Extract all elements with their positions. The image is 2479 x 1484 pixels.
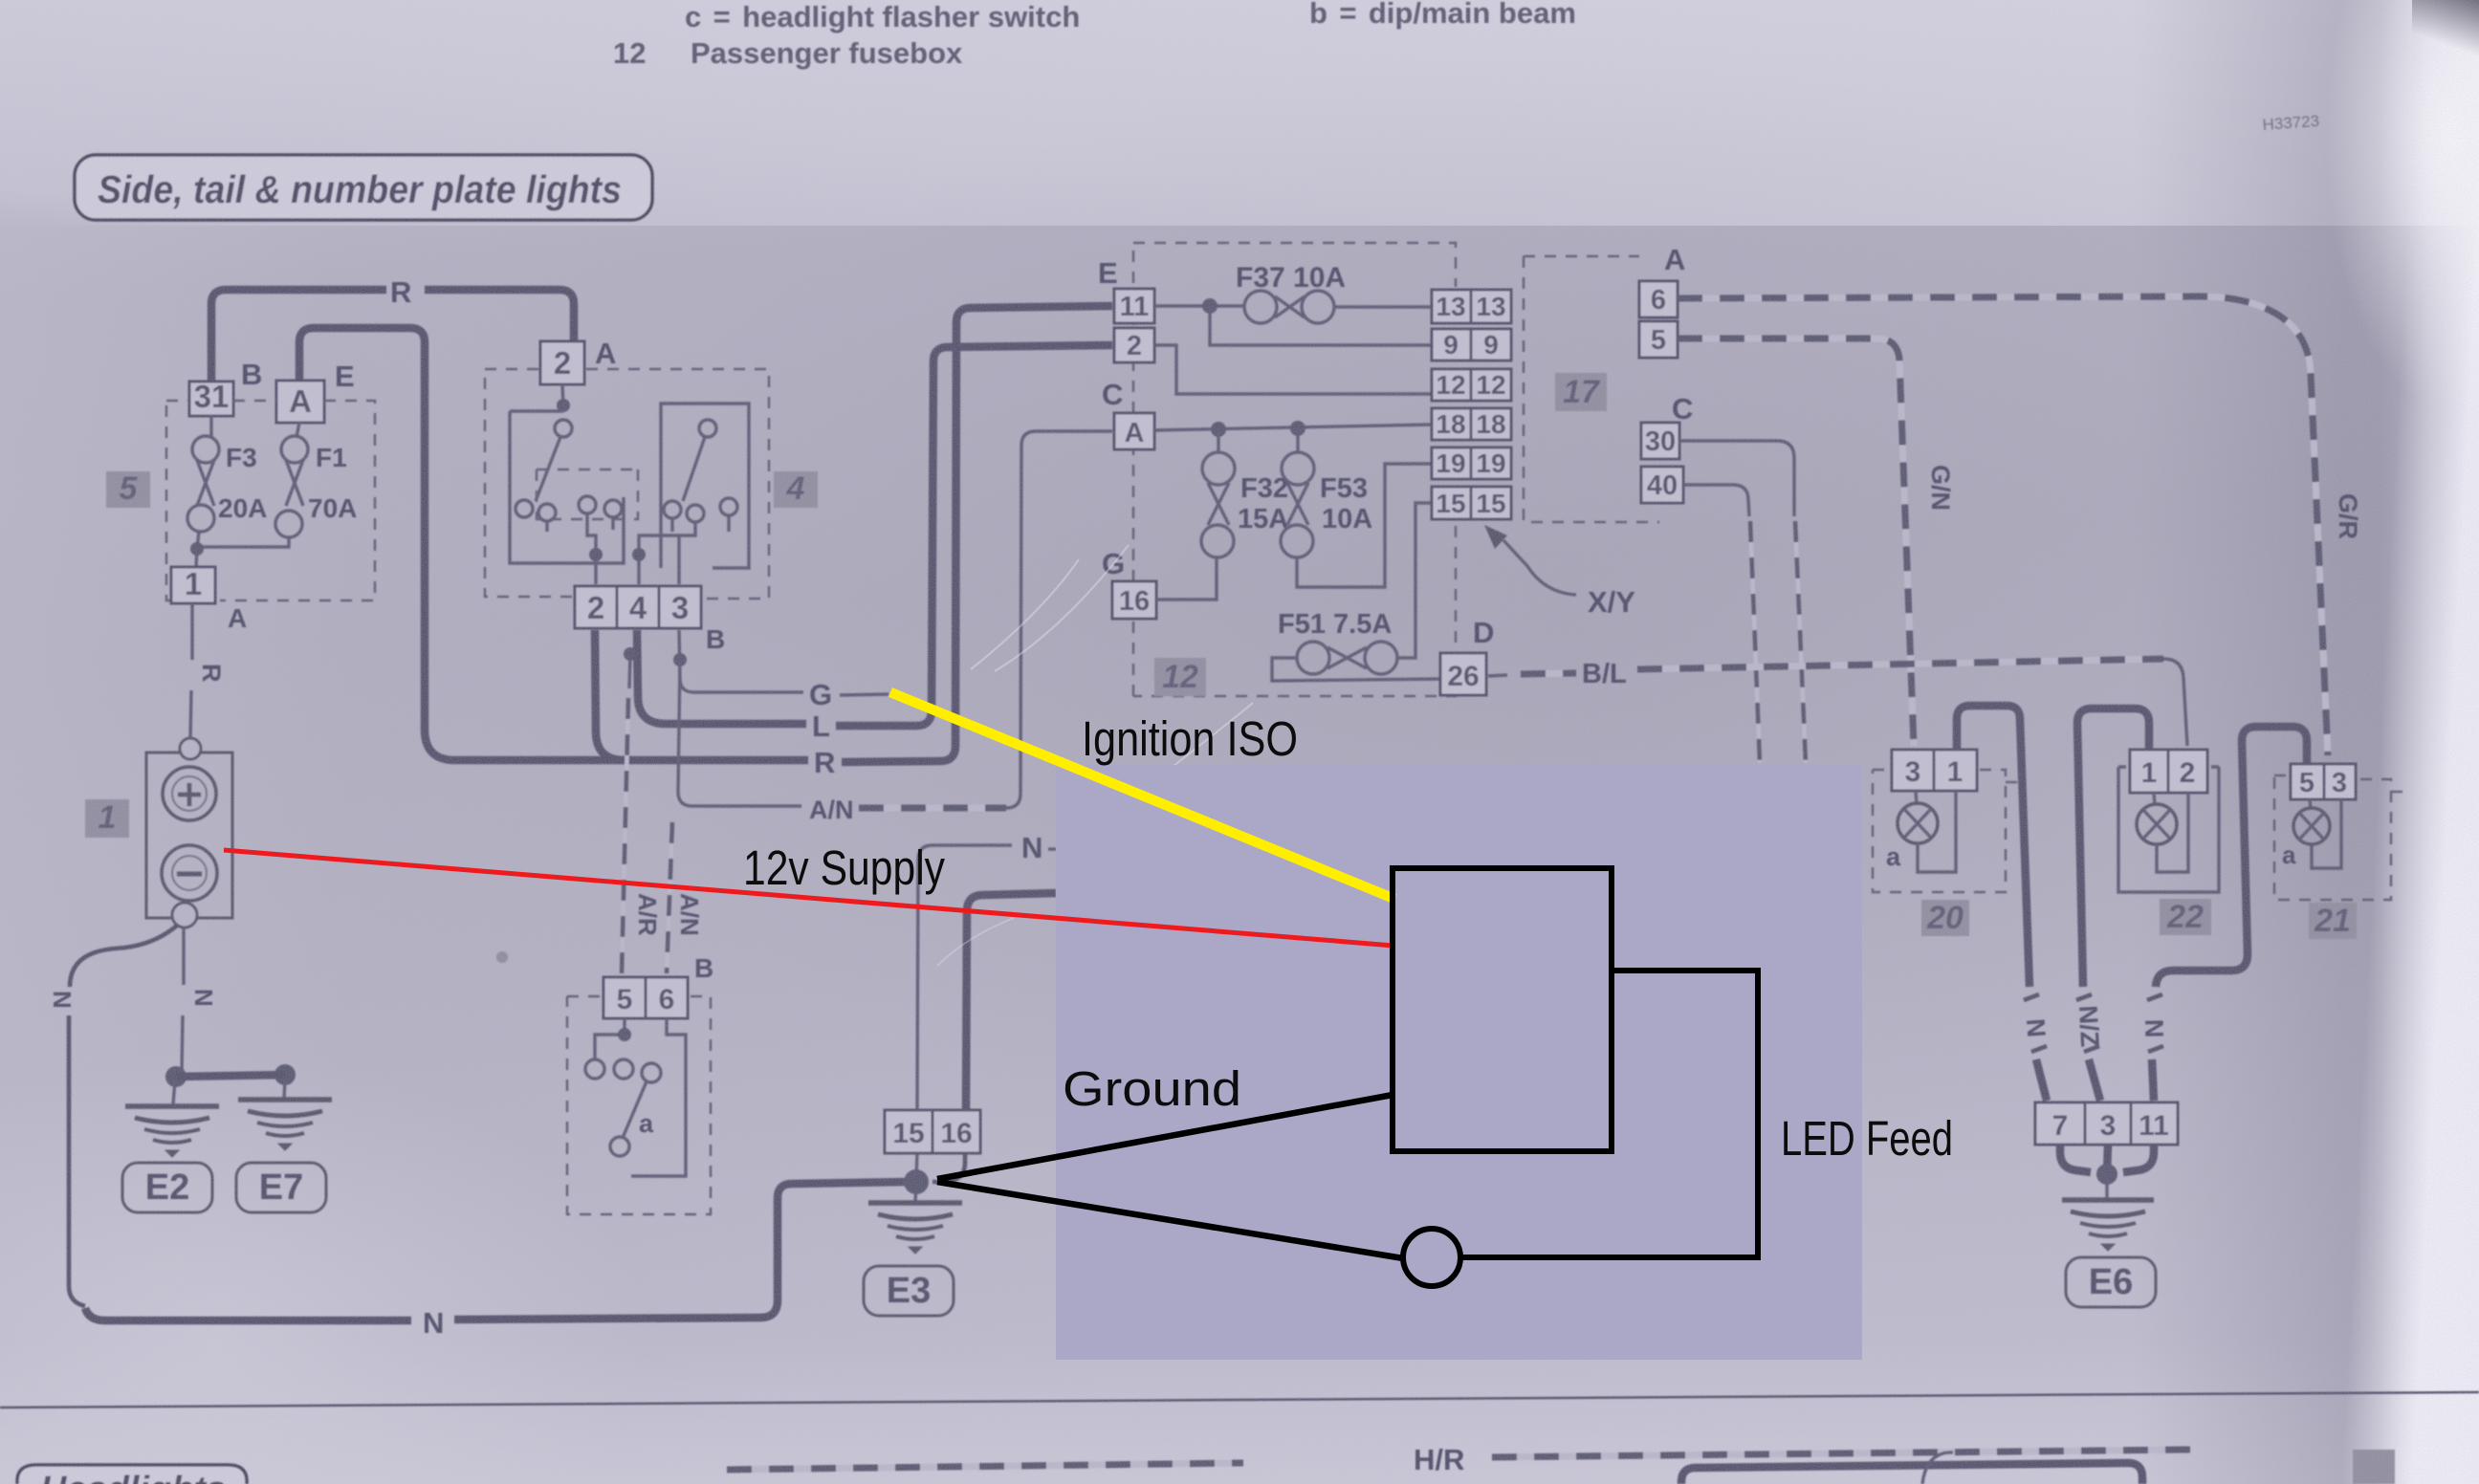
connector 6 <box>1639 281 1678 317</box>
wire G from pin 3 <box>679 630 803 692</box>
connector A (E) <box>276 381 324 423</box>
faint scratches on photo <box>971 545 1253 794</box>
wire L from pin 4 <box>637 630 806 724</box>
connector 3|1 of lamp 20 <box>1892 750 1934 791</box>
wire B/L from connector 26 to lamp 22 <box>1488 675 1507 676</box>
wire G/R from pin 6 across top to lamp 21 <box>1678 296 2328 755</box>
wire H/R of next diagram <box>727 1463 1243 1470</box>
bulb symbol lamp 22 <box>2154 793 2155 805</box>
red annotation line (12v supply pointer) <box>224 850 1393 946</box>
dashed outline component 5 <box>166 401 375 600</box>
battery outline <box>146 753 232 918</box>
wire from connector 1 down to battery with inline R label <box>190 603 193 660</box>
ground symbol E7 <box>238 1100 332 1150</box>
svg-text:Ground: Ground <box>1063 1061 1241 1116</box>
LED circle <box>1403 1229 1460 1286</box>
wire pin 15 to fuse F51 <box>1398 503 1432 658</box>
bottom return rail N <box>85 1308 411 1320</box>
ground tag E7 <box>236 1163 326 1212</box>
thick loop from lamp 20 pin 1 down to earth rail <box>1957 706 2029 987</box>
dashed outline component 4 <box>485 369 769 599</box>
wire 11 to fuse F37 to pin 13 <box>1154 306 1432 307</box>
wire A/N from pin 3 dot down then right <box>673 653 687 666</box>
id badge 4 <box>774 471 818 508</box>
ground tag E6 <box>2066 1257 2156 1307</box>
connector 16 <box>1112 581 1156 619</box>
hand drawn module box <box>1393 868 1612 1151</box>
inner dashed box <box>537 469 638 519</box>
fuse F3 20A <box>209 416 212 437</box>
fuse F53 10A <box>1296 428 1299 452</box>
LED feed wire <box>1460 971 1758 1257</box>
fuse F1 70A <box>296 423 299 437</box>
bottom light band <box>0 1341 2479 1484</box>
dark corner top-right <box>2412 0 2479 57</box>
X/Y arrow annotation <box>1503 540 1576 595</box>
thin wire from connector 15 down <box>916 1153 917 1177</box>
connector 1 of item 5 <box>171 567 215 603</box>
break marks and label N <box>2024 994 2047 1052</box>
id badge 17 <box>1555 373 1607 411</box>
fuse F37 <box>1244 291 1277 323</box>
fuse F32 15A <box>1217 429 1219 452</box>
connector 40 <box>1641 467 1683 503</box>
thick loop from lamp 21 pin 5 to earth rail <box>2156 727 2307 987</box>
id badge 22 <box>2160 899 2211 935</box>
wire to pin 9 <box>1210 306 1432 345</box>
wire R from pin 2 <box>595 630 808 760</box>
battery negative loop to bottom N rail <box>70 925 178 987</box>
wire G/N from pin 5 to lamp 20 <box>1678 338 1914 746</box>
thick hook from connector 16 down to junction <box>932 1153 965 1182</box>
battery + terminal <box>163 767 216 820</box>
thick loop from lamp 22 pin 1 to earth rail <box>2077 709 2149 987</box>
connector 5|6 (B) of component 7 <box>603 977 646 1018</box>
connector 2 <box>1114 328 1154 362</box>
switch interior right box <box>661 404 749 568</box>
battery wire down to ground junction <box>182 927 185 985</box>
connector 26 <box>1440 653 1486 695</box>
wire R top from fuse box 5 to light switch <box>211 290 386 382</box>
ground annotation lines <box>937 1095 1403 1258</box>
connector 2 (A) of switch <box>540 341 584 384</box>
page divider rule <box>0 1392 2479 1408</box>
junction dots and bar to grounds <box>165 1066 186 1087</box>
outline lamp 22 <box>2118 767 2219 892</box>
ground tag E3 <box>864 1266 954 1316</box>
wire 2 to pin 12 <box>1154 345 1432 394</box>
wire from connector A/E up over and down (battery feed) <box>299 328 631 760</box>
junction dot above connector 1 <box>190 542 204 556</box>
svg-text:12v Supply: 12v Supply <box>743 840 945 895</box>
title box Side, tail & number plate lights <box>75 155 652 220</box>
connector 7|3|11 <box>2035 1102 2085 1145</box>
photo smudge dot <box>496 951 508 963</box>
id badge 21 <box>2309 903 2357 939</box>
ground tag E2 <box>122 1163 212 1212</box>
break marks and label N/Z <box>2076 994 2099 1052</box>
svg-text:Ignition ISO: Ignition ISO <box>1082 711 1298 766</box>
thick wire from 16 up and right under overlay <box>966 893 1056 1110</box>
id badge 12 <box>1154 658 1206 696</box>
wire from pin 40 down under annotation overlay <box>1683 485 1749 516</box>
connector A <box>1114 413 1154 449</box>
ground symbol E3 <box>868 1203 962 1254</box>
ground symbol E6 <box>2062 1200 2154 1251</box>
yellow annotation line (ignition ISO pointer) <box>890 692 1394 899</box>
dashed outline component 12 <box>1133 243 1456 696</box>
connector 11 <box>1114 289 1154 323</box>
svg-text:LED Feed: LED Feed <box>1781 1111 1953 1166</box>
pin column 13 13 / 9 9 / 12 12 / 18 18 / 19 19 / 15 15 <box>1432 290 1511 519</box>
top light band <box>0 0 2479 226</box>
ground symbol E2 <box>125 1106 219 1157</box>
headlights title box (cropped) <box>17 1465 247 1484</box>
contact hooks to connector <box>547 513 613 584</box>
connector row 2|4|3 (B) <box>575 586 617 628</box>
battery bottom terminal circle <box>172 903 197 927</box>
junction dot at E3 <box>904 1169 929 1194</box>
thin wire N stub up from 15 <box>917 845 1012 1110</box>
battery - terminal <box>162 845 217 901</box>
dashed outline lamp 21 <box>2274 775 2402 900</box>
bulb symbol lamp 21 <box>2310 799 2311 809</box>
connector 5|3 of lamp 21 <box>2291 764 2324 799</box>
connector 30 <box>1641 423 1679 459</box>
small arc next diagram bottom left <box>1922 1452 1953 1484</box>
connector 31 (B) <box>189 382 233 416</box>
flat paste rectangle <box>1056 765 1862 1360</box>
contact circles row <box>516 500 533 517</box>
dashed drop A/N to component 7 pin 6 <box>667 822 672 973</box>
dashed drop A/R to component 7 pin 5 <box>624 647 637 661</box>
break marks and label N <box>2147 994 2163 1052</box>
wire A to pin 18 <box>1154 425 1432 430</box>
switch interior left box <box>562 384 563 405</box>
merge hooks to ground dot <box>2060 1145 2091 1172</box>
id badge 20 <box>1921 900 1969 936</box>
connector 15|16 <box>885 1110 932 1153</box>
switch lever a <box>623 1081 647 1138</box>
battery top terminal circle <box>180 738 201 759</box>
dashed outline component 7 <box>567 996 711 1214</box>
bulb symbol lamp 20 <box>1916 791 1917 805</box>
id badge 1 <box>85 799 129 838</box>
connector 5 <box>1639 321 1678 358</box>
small badge next diagram <box>2353 1450 2395 1484</box>
wire from pin 30 down under annotation overlay <box>1679 441 1794 516</box>
switch 7 interior <box>595 1018 686 1176</box>
dashed outline lamp 20 <box>1873 770 2018 892</box>
connector 1|2 of lamp 22 <box>2130 750 2168 793</box>
id badge 5 <box>106 471 150 508</box>
rounded box top of next diagram <box>1681 1463 2142 1484</box>
dashed outline component 17 <box>1524 256 1659 522</box>
